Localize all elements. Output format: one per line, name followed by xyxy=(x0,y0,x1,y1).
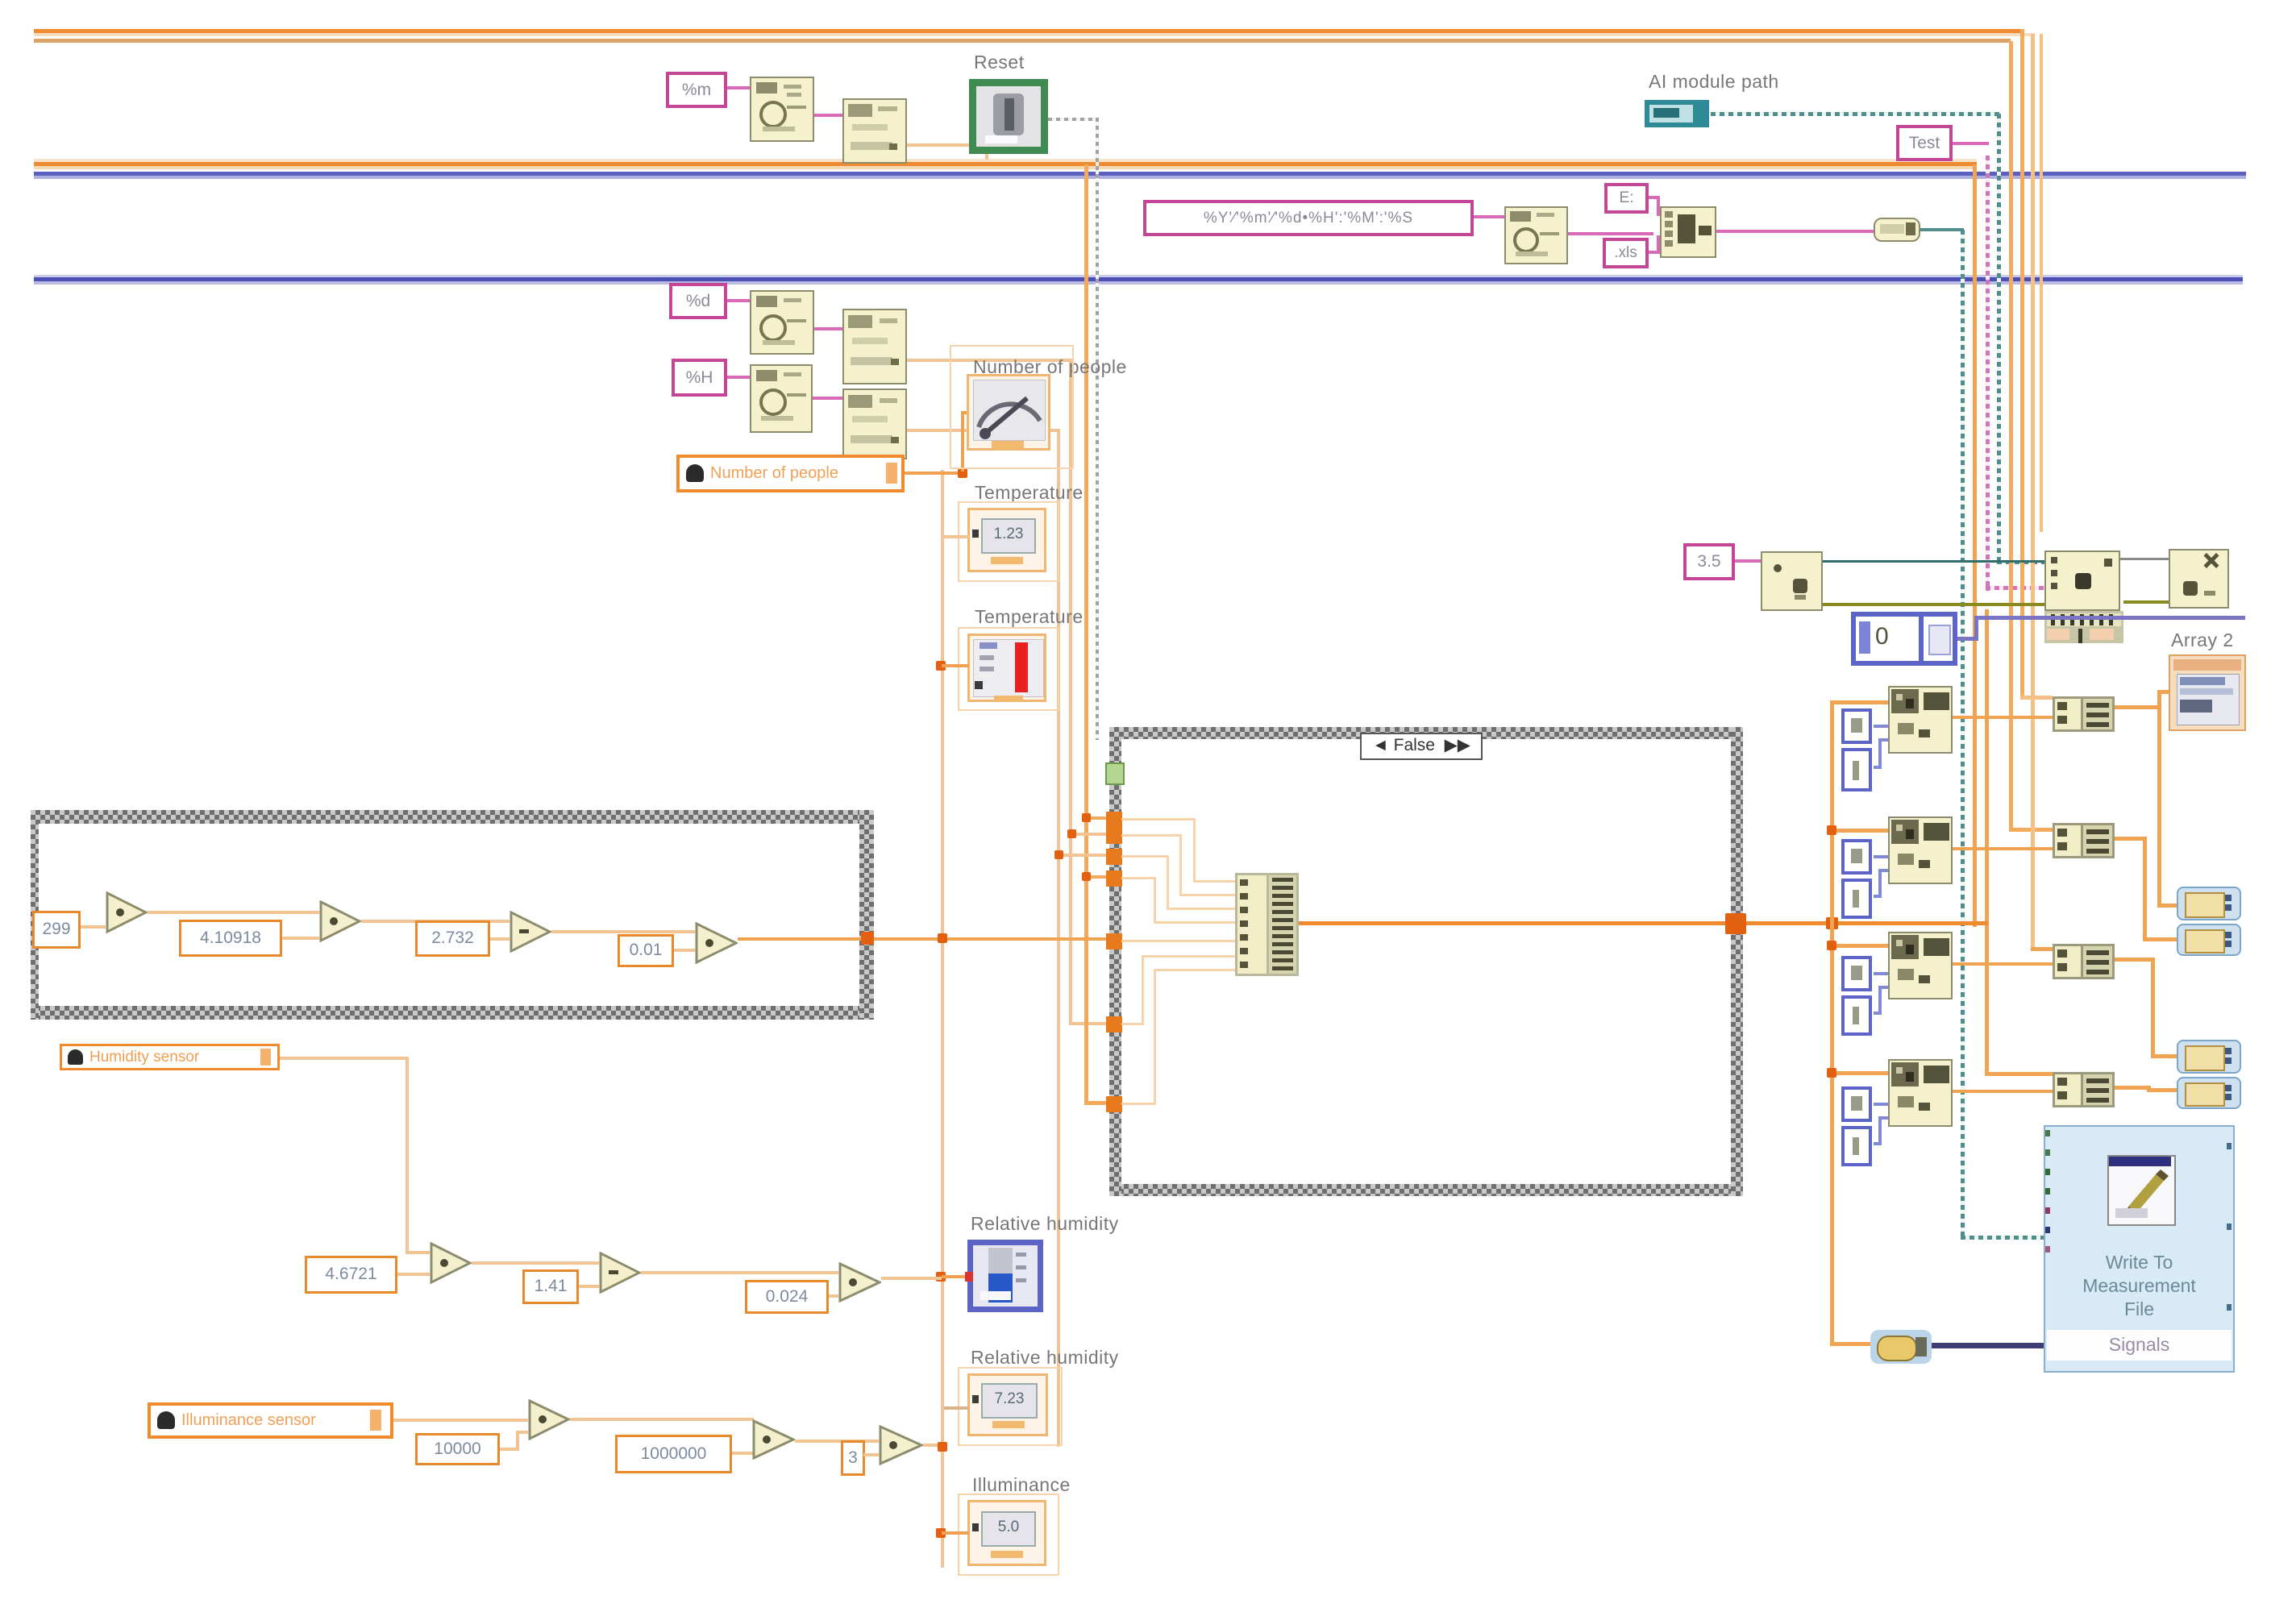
sequence structure border right xyxy=(859,810,874,1020)
wire vertical teal dashed path to file xyxy=(1961,230,1965,1238)
numeric constant N4 idx b xyxy=(1841,1126,1872,1166)
wire stub temp2 xyxy=(942,664,969,667)
numeric constant 1000000 xyxy=(615,1435,732,1473)
wire S3 out down to array B1 xyxy=(2115,958,2155,962)
wire case in T7 xyxy=(1121,1103,1156,1105)
string constant Test xyxy=(1896,125,1953,161)
wire stub temp1 xyxy=(942,535,969,538)
wire vertical pale orange center c xyxy=(1069,359,1072,1024)
wire gray AD to X node xyxy=(2120,558,2169,560)
label AI module path xyxy=(1649,71,1779,93)
label Reset xyxy=(974,52,1025,73)
wire S2 out down to array A2 xyxy=(2115,837,2147,841)
wire case in T2 xyxy=(1121,834,1182,837)
label Array 2 xyxy=(2171,629,2234,651)
wire magenta %d to node xyxy=(727,299,750,302)
label Temperature 1 xyxy=(975,482,1084,504)
tunnel case T1 xyxy=(1106,812,1122,828)
string constant %m xyxy=(666,72,727,108)
build array node S3 xyxy=(2053,944,2115,979)
tunnel case T3 xyxy=(1106,849,1122,865)
wire N3 out to S3 xyxy=(1953,962,2053,966)
scan node D xyxy=(842,388,907,459)
wire orange scanD elbow to vertical b xyxy=(907,429,1060,432)
wire vertical orange center from bus2 xyxy=(1084,164,1088,1104)
wire H1 out xyxy=(472,1261,599,1265)
add node AD xyxy=(2044,550,2120,611)
case selector label False xyxy=(1360,733,1483,760)
wire teal M1 to add node xyxy=(1823,560,2044,563)
multiply triangle L3 xyxy=(879,1425,923,1465)
wire feed T4 xyxy=(1087,875,1108,879)
wire gray dashed from Reset xyxy=(1048,118,1098,121)
array indicator A2 xyxy=(2177,924,2241,956)
tunnel case T2 xyxy=(1106,828,1122,844)
wire magenta E: elbow xyxy=(1649,196,1660,199)
wire magenta %H to node xyxy=(727,376,750,379)
case structure border left xyxy=(1109,727,1121,1196)
wire H2 out xyxy=(641,1271,838,1274)
wire magenta format1 to scan1 xyxy=(814,114,842,117)
string to path node xyxy=(1874,218,1920,242)
case structure border bottom xyxy=(1109,1184,1743,1196)
multiply triangle H3 xyxy=(838,1262,881,1302)
wire orange bus 1 xyxy=(34,29,2024,33)
wire magenta nodeC to scanD xyxy=(813,397,842,400)
numeric constant N2 idx b xyxy=(1841,879,1872,919)
gauge Number of people xyxy=(967,374,1050,451)
string constant E: xyxy=(1604,183,1649,214)
scan node B xyxy=(842,309,907,384)
wire vertical orange from top edge B xyxy=(2040,34,2043,532)
wire magenta format2 out xyxy=(1568,232,1653,235)
label Number of people xyxy=(973,356,1127,378)
label Illuminance xyxy=(972,1474,1071,1496)
wire vertical teal dashed from AI module path xyxy=(1997,114,2001,563)
build array node S1 xyxy=(2053,696,2115,732)
numeric control 0 xyxy=(1851,612,1957,666)
convert to dynamic data node xyxy=(1870,1330,1932,1364)
wire 0.024 to multT2 xyxy=(829,1294,838,1298)
wire orange bus 2 xyxy=(34,159,1977,162)
wire feed T3 xyxy=(1059,854,1108,857)
wire illum ref to divT xyxy=(393,1419,528,1422)
indicator frame Temperature 1 xyxy=(958,501,1059,582)
numeric constant 0.01 xyxy=(618,934,674,967)
wire magenta nodeA to scanB xyxy=(814,327,842,330)
wire 0.01 to add2 xyxy=(674,949,695,952)
wire tap N3 xyxy=(1830,944,1888,948)
wire orange bus 1b xyxy=(34,39,2011,43)
wire blue N3 consts xyxy=(1874,972,1888,975)
wire case in T6 xyxy=(1121,1023,1144,1025)
array indicator B1 xyxy=(2177,1040,2241,1074)
case structure border right xyxy=(1731,727,1743,1196)
array indicator Array 2 xyxy=(2169,654,2246,731)
indicator frame RH 2 xyxy=(958,1367,1063,1446)
numeric constant 4.10918 xyxy=(179,920,282,957)
wire N4 out to S4 xyxy=(1953,1090,2053,1093)
wire 4.10918 to mult xyxy=(282,937,319,940)
label Relative humidity 2 xyxy=(971,1347,1119,1369)
wire N1 out to S1 xyxy=(1953,716,2053,719)
control reference Humidity sensor xyxy=(60,1044,280,1070)
wire feed T1 xyxy=(1087,816,1108,820)
label Temperature 2 xyxy=(975,606,1084,628)
tunnel case output xyxy=(1725,913,1746,934)
wire teal dashed AI path to right xyxy=(1711,112,1999,116)
wire olive M1 to add node xyxy=(1823,603,2044,606)
index array node N4 xyxy=(1888,1059,1953,1127)
tunnel formula out xyxy=(861,932,874,945)
sequence structure border top xyxy=(31,810,874,824)
numeric constant 4.6721 xyxy=(305,1256,397,1294)
numeric constant 2.732 xyxy=(415,920,490,957)
numeric indicator Illuminance xyxy=(967,1500,1046,1566)
subtract triangle H2 xyxy=(599,1252,641,1294)
wire vertical orange from top edge A xyxy=(2020,29,2024,700)
format date/time node C xyxy=(750,364,813,433)
tunnel case boolean xyxy=(1105,762,1125,785)
wire vertical magenta dashed from Test xyxy=(1986,156,1990,591)
wire N2 out to S2 xyxy=(1953,847,2053,850)
wire tap N2 xyxy=(1830,829,1888,833)
wire S1 branch down to array A1 xyxy=(2157,904,2178,908)
numeric constant 10000 xyxy=(415,1433,500,1465)
numeric constant N1 idx a xyxy=(1841,708,1872,744)
wire 3 to L3 xyxy=(863,1453,879,1456)
format date/time node A xyxy=(750,290,814,355)
node junction main-2272 xyxy=(1826,917,1838,929)
numeric constant N1 idx b xyxy=(1841,748,1872,791)
format date/time node 1 xyxy=(750,77,814,142)
wire mult out xyxy=(361,920,510,923)
indicator frame Temperature 2 xyxy=(958,627,1059,711)
express VI Write To Measurement File xyxy=(2044,1125,2235,1373)
tunnel case T5 xyxy=(1106,933,1122,949)
tank indicator Relative humidity xyxy=(967,1240,1043,1312)
wire 2.732 to sub xyxy=(490,937,510,941)
wire vertical pale orange center b xyxy=(1057,429,1060,1447)
path control AI module path xyxy=(1645,100,1709,127)
build array node S4 xyxy=(2053,1072,2115,1107)
wire main output to right xyxy=(1746,921,1988,925)
boolean Reset xyxy=(969,79,1048,154)
wire blue N4 consts xyxy=(1874,1103,1888,1106)
label Relative humidity 1 xyxy=(971,1213,1119,1235)
build array node S2 xyxy=(2053,823,2115,858)
wire L1 out xyxy=(570,1418,754,1421)
wire vertical orange from bus2 xyxy=(1973,164,1977,927)
wire tap N1 xyxy=(1830,700,1888,704)
wire teal path node out xyxy=(1920,228,1964,231)
wire formula out to tunnel xyxy=(738,937,1107,941)
numeric constant 1.41 xyxy=(522,1269,579,1304)
format date/time node 2 xyxy=(1504,206,1568,264)
wire 299 to add1 xyxy=(81,925,106,929)
wire blue N2 consts xyxy=(1874,855,1888,858)
string constant %d xyxy=(669,283,727,319)
wire case in T1 xyxy=(1121,818,1196,821)
wire magenta Test elbow down xyxy=(1953,142,1989,145)
wire magenta %m to format node xyxy=(727,86,750,89)
wire 1000000 to multL2 xyxy=(732,1452,754,1455)
wire blue bus 1 xyxy=(34,172,2246,176)
control reference Number of people xyxy=(676,455,905,492)
multiply triangle F2 xyxy=(319,900,361,942)
tunnel case T6 xyxy=(1106,1016,1122,1032)
numeric constant N2 idx a xyxy=(1841,839,1872,875)
array indicator B2 xyxy=(2177,1077,2241,1109)
index array node N1 xyxy=(1888,686,1953,754)
wire 4.6721 to multT1 xyxy=(397,1273,430,1276)
wire case in T3 xyxy=(1121,855,1169,858)
indicator frame Illuminance xyxy=(958,1494,1059,1576)
wire 2272 bottom to convert node xyxy=(1830,1342,1870,1346)
wire sub out xyxy=(551,930,695,933)
wire vertical orange to small node4 xyxy=(1985,609,1989,1076)
wire L3 out xyxy=(923,1444,942,1447)
numeric constant N4 idx a xyxy=(1841,1086,1872,1122)
numeric constant N3 idx b xyxy=(1841,995,1872,1036)
wire olive AD to X node xyxy=(2123,600,2169,604)
numeric indicator Temperature 1 xyxy=(967,508,1046,572)
wire L2 out xyxy=(795,1440,879,1443)
wire magenta concat out to path node xyxy=(1716,230,1874,233)
wire purple 0 to array2 wire xyxy=(1957,637,1978,641)
wire vertical orange from bus1 xyxy=(2031,34,2035,951)
node junction rh1 xyxy=(936,1272,946,1282)
node junction temp2 xyxy=(936,661,946,671)
concatenate strings node xyxy=(1660,206,1716,258)
wire pale orange scan1 out to bus xyxy=(907,143,988,147)
thermometer Temperature 2 xyxy=(967,634,1046,702)
wire stub rh1 xyxy=(942,1275,969,1278)
numeric constant 299 xyxy=(32,911,81,949)
numeric indicator RH 2 xyxy=(967,1373,1048,1436)
wire ref to junction xyxy=(905,472,963,475)
tunnel case T4 xyxy=(1106,870,1122,887)
wire S1 out up to Array 2 xyxy=(2115,705,2161,709)
sequence structure border left xyxy=(31,810,39,1020)
wire H3 out to junction xyxy=(881,1277,942,1280)
wire magenta xls elbow xyxy=(1649,251,1660,254)
node junction NOP xyxy=(958,468,967,478)
wire feed T2 xyxy=(1072,833,1108,836)
numeric constant 3.5 xyxy=(1683,543,1735,580)
indicator frame Number of people xyxy=(950,345,1074,469)
array indicator A1 xyxy=(2177,887,2241,920)
wire stub rh2 xyxy=(944,1406,969,1410)
wire 10000 elbow to divT xyxy=(500,1448,518,1451)
numeric constant 3 xyxy=(841,1440,865,1476)
build array node xyxy=(1235,873,1299,976)
wire case main output xyxy=(1299,921,1731,925)
numeric constant N3 idx a xyxy=(1841,956,1872,991)
index comb under add node xyxy=(2044,611,2123,643)
string constant date format xyxy=(1143,200,1474,236)
node junction illum xyxy=(936,1528,946,1538)
wire vertical pale orange center main xyxy=(941,470,944,1568)
multiply triangle H1 xyxy=(430,1242,472,1284)
multiply triangle L2 xyxy=(752,1419,795,1460)
wire orange scanB elbow to vertical c xyxy=(907,359,1072,362)
multiply node M1 xyxy=(1761,551,1823,611)
numeric constant 0.024 xyxy=(745,1280,829,1314)
wire junction up into gauge xyxy=(961,411,964,472)
node junction formula-main xyxy=(938,933,947,943)
wire vertical feed 2272 xyxy=(1830,702,1834,1346)
power node X xyxy=(2169,549,2229,609)
scan from string node 1 xyxy=(842,98,907,164)
index array node N2 xyxy=(1888,816,1953,884)
wire vertical orange from bus1b xyxy=(2009,41,2013,832)
tunnel case T7 xyxy=(1106,1096,1122,1112)
node junction humid-mid xyxy=(938,1442,947,1452)
case structure border top xyxy=(1109,727,1743,739)
wire stub illum xyxy=(942,1531,969,1535)
string constant xls xyxy=(1603,238,1649,268)
wire magenta constant to format2 xyxy=(1474,215,1504,218)
wire navy signals xyxy=(1932,1343,2044,1348)
wire case in T4 xyxy=(1121,877,1156,879)
wire case in T5 xyxy=(1121,940,1235,942)
wire tap N4 xyxy=(1830,1071,1888,1075)
control reference Illuminance sensor xyxy=(148,1402,393,1439)
add triangle F1 xyxy=(106,891,148,933)
string constant %H xyxy=(672,359,727,397)
wire humidity ref right then down xyxy=(280,1057,409,1060)
add triangle F4 xyxy=(695,922,738,964)
wire blue N1 consts xyxy=(1874,725,1888,728)
subtract triangle F3 xyxy=(510,911,551,953)
wire 1.41 to subT xyxy=(579,1285,599,1288)
sequence structure border bottom xyxy=(31,1006,874,1020)
wire add1 out xyxy=(148,911,319,914)
index array node N3 xyxy=(1888,932,1953,999)
wire magenta 3.5 to multiply xyxy=(1735,559,1761,563)
divide triangle L1 xyxy=(528,1399,570,1440)
wire S4 out to array B2 xyxy=(2115,1086,2151,1090)
wire blue bus 2 xyxy=(34,275,2243,277)
